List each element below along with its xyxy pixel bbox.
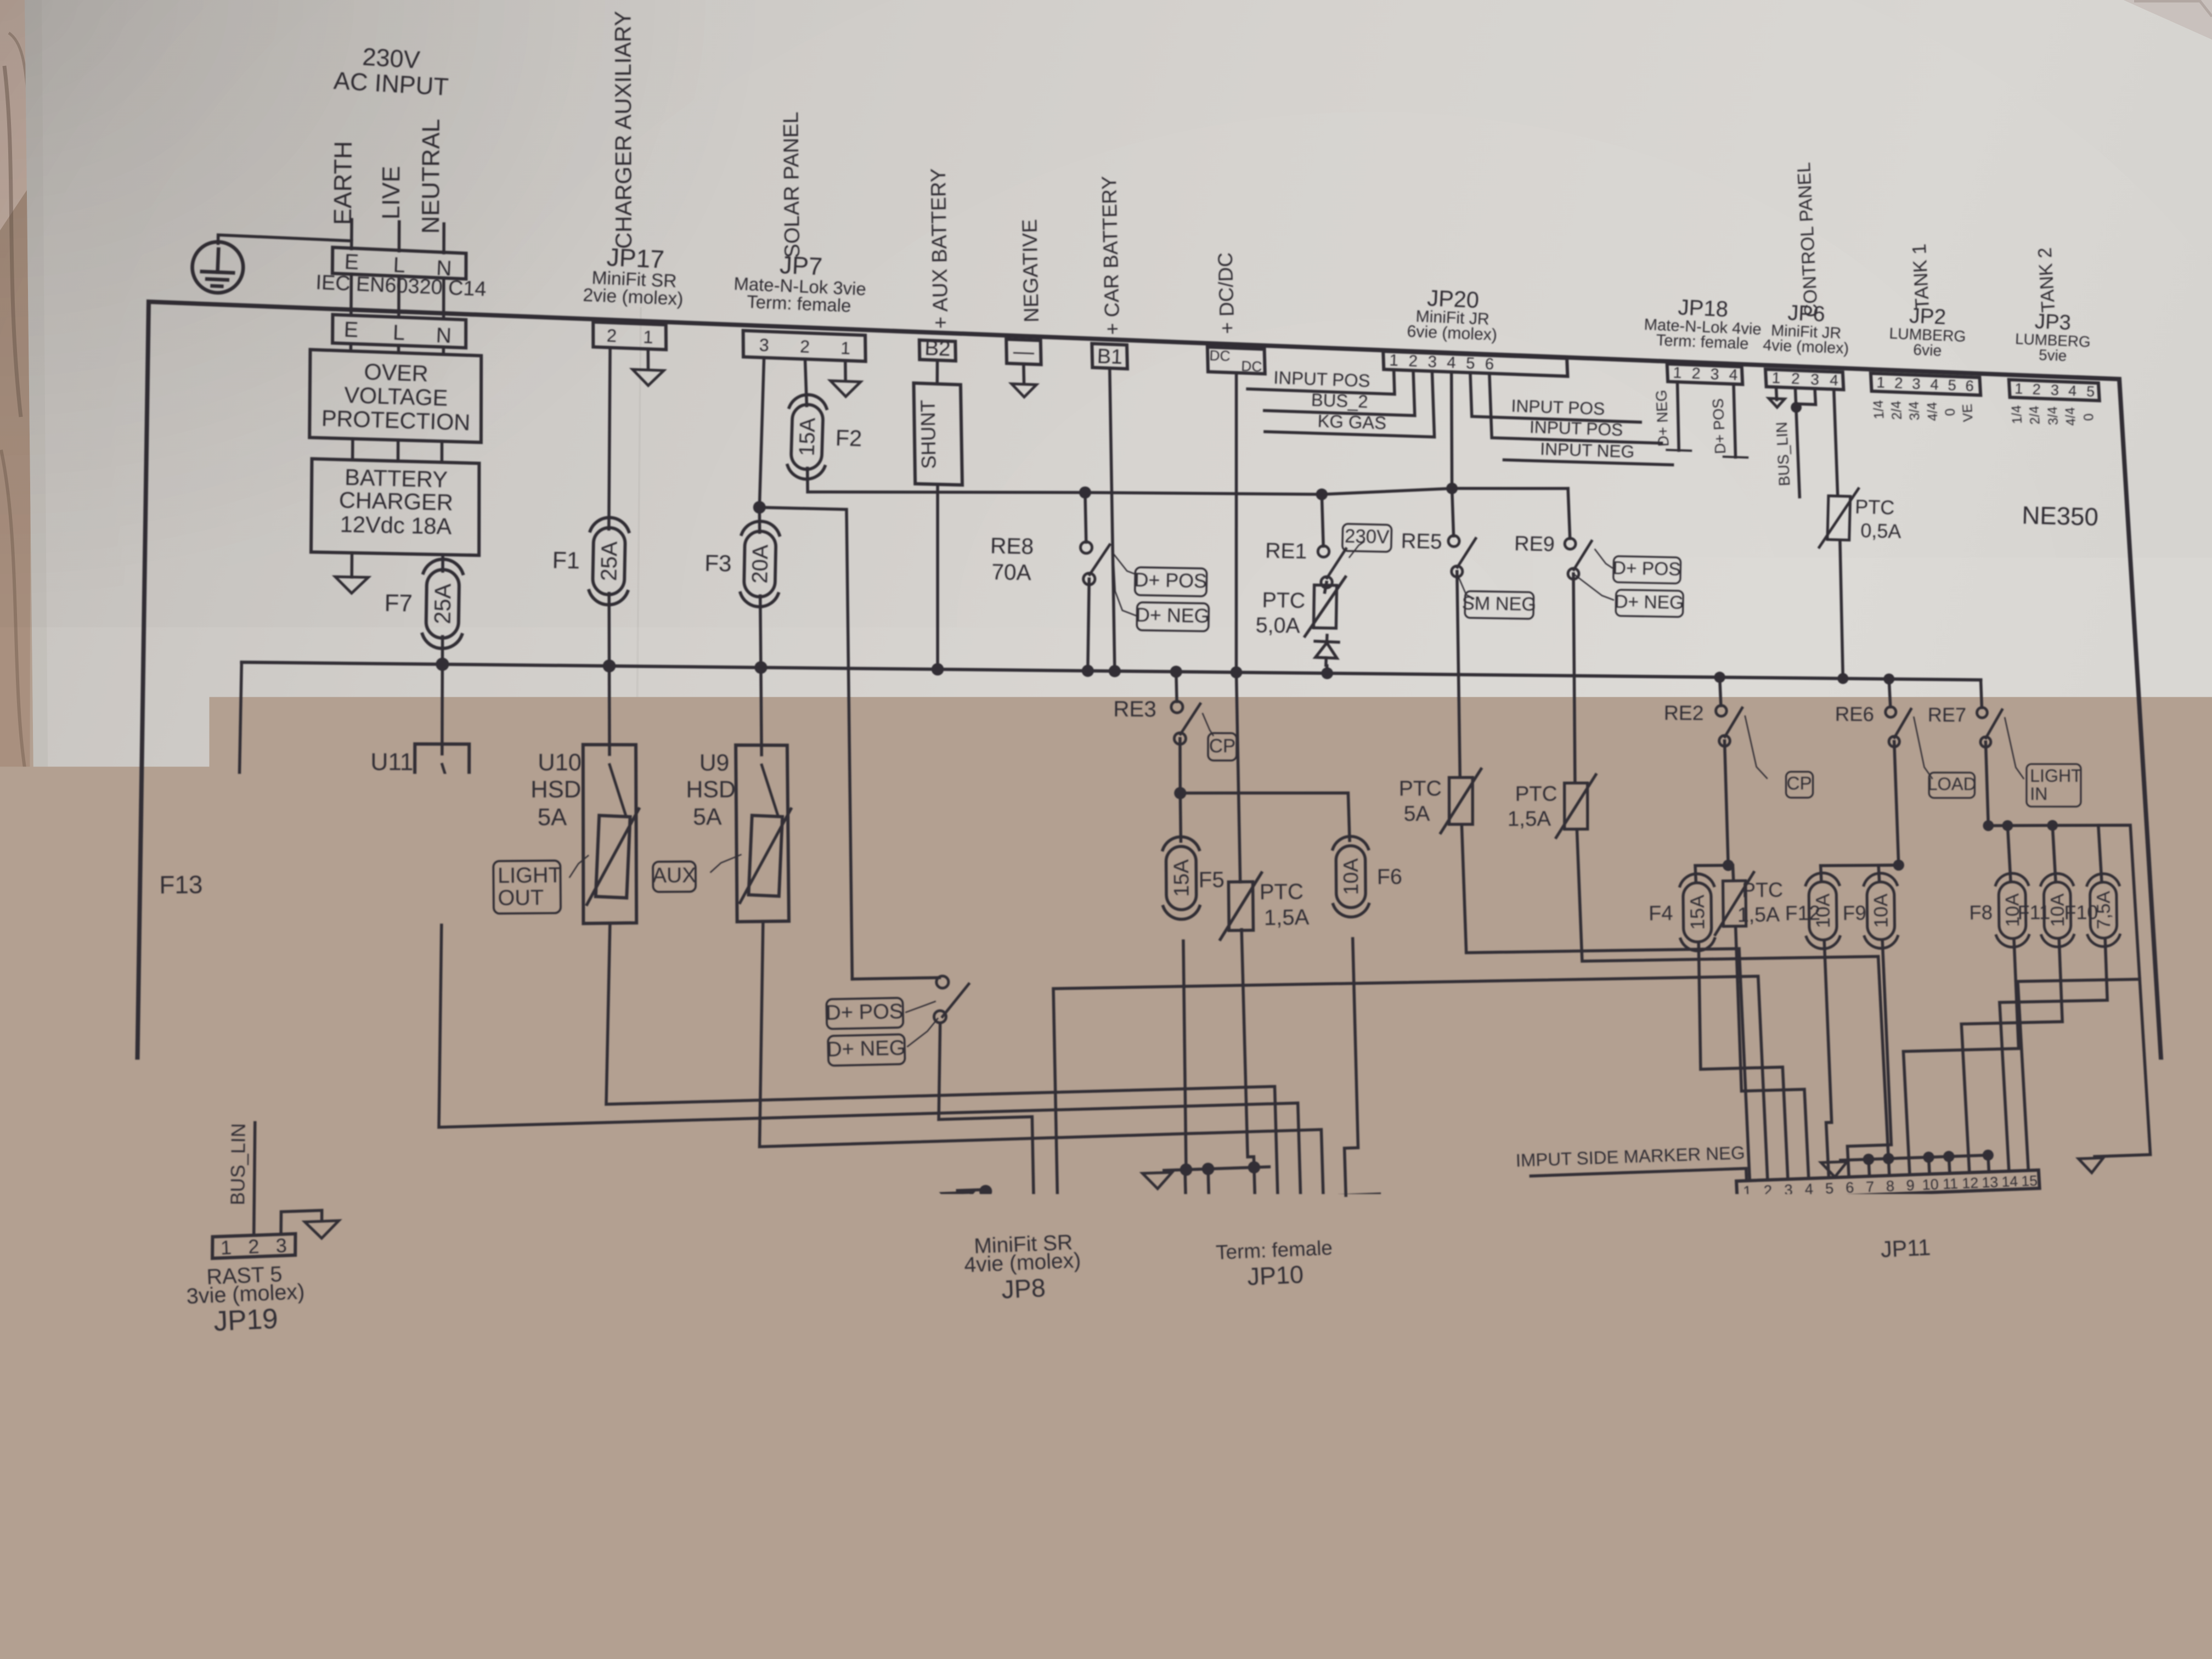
wire diode to bus <box>1325 666 1329 674</box>
wire U9 output to JP10 pin7 <box>760 922 1324 1197</box>
wire charger to ground <box>350 553 353 577</box>
connector lower E L N box <box>332 315 466 348</box>
connector B2 box <box>919 340 956 361</box>
wire shunt to bus <box>936 484 939 669</box>
connector JP20 box <box>1383 351 1567 376</box>
wire JP6 pin2 to BUS_LIN <box>1795 388 1799 497</box>
wire DCDC down through bus to PTC <box>1235 373 1238 673</box>
battery charger box <box>311 459 479 555</box>
wire node to solar vertical <box>759 507 852 979</box>
wire JP17 pin2 to F1 <box>609 348 610 529</box>
marble top-right corner <box>2124 0 2212 39</box>
paper left edge shade <box>25 0 134 1620</box>
relay RE5 <box>1452 488 1454 536</box>
net box D+ POS at RE9 <box>1612 556 1681 584</box>
node under RE3 <box>1174 787 1186 799</box>
continuation arrow at JP7 pin1 <box>831 381 861 397</box>
wire solar vertical to RE4 <box>852 978 939 979</box>
wire JP6 pin1 stub <box>1776 387 1777 400</box>
continuation arrow JP6 pin1 <box>1769 398 1785 407</box>
net box CP at RE3 <box>1208 733 1237 760</box>
fuse F7 25A <box>422 559 463 649</box>
connector JP17 box <box>593 322 666 349</box>
junction dot RE8 top <box>1079 487 1091 499</box>
wire JP20 pin6 INPUT POS 2 <box>1489 374 1662 443</box>
junction dots JP10 <box>1180 1164 1193 1176</box>
shunt box <box>914 383 963 485</box>
wire JP6 pin4 to PTC 0,5A <box>1834 390 1838 495</box>
relay RE9 <box>1568 488 1570 538</box>
PTC 1,5A mid thermistor <box>1714 872 1754 935</box>
connector JP10 box <box>1175 1194 1380 1222</box>
connector JP18 box <box>1667 364 1743 384</box>
net box LIGHT IN <box>2027 764 2082 807</box>
fuse F1 25A <box>589 517 629 605</box>
wire RE6 to node <box>1894 742 1899 865</box>
wire RE2 to node <box>1725 741 1729 865</box>
fold highlight band <box>115 1426 2212 1620</box>
junction dot RE5 top <box>1446 483 1458 494</box>
wire JP6 pin3 hook <box>1797 388 1816 404</box>
wire JP11 ground line <box>1841 1155 1988 1160</box>
leader RE1 to 230V box <box>1350 542 1364 557</box>
wire JP18 pin1 D+NEG <box>1678 382 1679 450</box>
continuation arrow at JP17 pin1 <box>633 369 664 385</box>
leader RE9 to D+POS/D+NEG <box>1595 550 1612 568</box>
junction dot JP6 <box>1791 402 1802 413</box>
relay RE1 <box>1322 494 1323 546</box>
diode at RE1 branch <box>1314 635 1339 665</box>
wire B1 to bus <box>1110 368 1115 671</box>
connector JP11 box <box>1736 1170 2040 1200</box>
wire F10 to JP11 pin14 <box>2000 939 2107 1171</box>
wire JP20 pin4 down to KG feed line <box>1450 372 1453 488</box>
wire JP17 pin1 stub <box>647 349 650 369</box>
connector minus box <box>1006 339 1041 364</box>
relay RE6 <box>1889 679 1891 707</box>
stub JP10 pin2 <box>1208 1169 1209 1200</box>
fuse F2 15A <box>787 394 827 479</box>
pin ticks OVP to charger <box>351 439 354 460</box>
wire JP20 pin2 to BUS_2 <box>1265 370 1415 415</box>
wire U10 output to JP10 pin5 <box>606 923 1278 1198</box>
wire JP8 pin4 riser to JP11 pin2 <box>1053 977 1768 1206</box>
wire RE6 node to F12 <box>1821 865 1899 881</box>
outer border of schematic <box>134 302 2169 1261</box>
HSD switch U9 <box>736 745 789 922</box>
net box SM NEG <box>1462 591 1536 619</box>
leader RE6 to LOAD <box>1914 717 1932 778</box>
wire U11 output to JP10 pin6 <box>439 925 1301 1197</box>
wire earth to E pin <box>218 235 352 244</box>
wire JP20 pin5 INPUT POS right <box>1470 373 1640 422</box>
wire F3 to bus <box>760 596 761 668</box>
wire charger to F7 <box>441 555 444 571</box>
wire F9 to JP11 pin6 <box>1847 940 1891 1177</box>
wire BUS_LIN to JP19 pin2 <box>254 1122 255 1235</box>
wire minus stub <box>1022 364 1025 383</box>
connector JP2 box <box>1871 373 1980 395</box>
connector B1 box <box>1092 343 1127 369</box>
PTC 1,5A left thermistor <box>1220 873 1262 939</box>
pin ticks through border <box>349 274 353 315</box>
wire bus corner to RE7 <box>1981 680 1982 708</box>
node RE2 branch <box>1723 860 1734 871</box>
wire RE3 to node <box>1178 738 1182 793</box>
ground arrow at JP19 <box>305 1221 339 1238</box>
PTC 1,5A right thermistor <box>1556 775 1596 838</box>
ground arrow at JP10 <box>1143 1172 1172 1189</box>
wire node to F5 <box>1180 793 1181 842</box>
connector IEC EN60320 C14 upper E L N box <box>332 247 466 279</box>
fuse F8 10A <box>1995 873 2029 947</box>
wire JP7 pin1 stub <box>844 360 847 380</box>
wire RE7 line to fuses F8 F11 F10 <box>1988 825 2150 1156</box>
net box D+ NEG at RE8 <box>1136 602 1210 631</box>
leader RE7 to LIGHT IN <box>2005 718 2023 779</box>
net box D+ POS at RE8 <box>1134 567 1207 596</box>
wire JP11 pin15 riser <box>2018 979 2140 1170</box>
HSD switch U11 <box>414 744 469 926</box>
fuse F3 20A <box>740 521 780 607</box>
continuation arrow minus <box>1012 384 1036 397</box>
wire JP7 pin3 down to node <box>759 358 764 507</box>
junction dots JP11 ground line <box>1863 1154 1875 1165</box>
net line IMPUT SIDE MARKER NEG <box>1531 1169 1746 1181</box>
folded lower page strip <box>112 1494 2212 1659</box>
wire JP20 pin1 to INPUT POS <box>1248 370 1395 394</box>
node RE7 branch <box>1983 820 1994 831</box>
wire RE5 through bus to PTC 5A <box>1457 572 1460 777</box>
net box D+ NEG at RE9 <box>1615 590 1684 617</box>
wire NEUTRAL tick <box>442 224 445 253</box>
wire F11 stub <box>2052 826 2056 882</box>
net box D+ NEG at RE4 <box>826 1034 906 1065</box>
wire F4 to JP11 pin3 <box>1699 943 1788 1180</box>
stub JP10 pin1 <box>1185 1170 1186 1201</box>
relay RE4 <box>936 976 949 988</box>
fuse F12 10A <box>1805 873 1840 949</box>
wire RE9 through bus to PTC 1,5A <box>1573 574 1575 782</box>
leader PUMP <box>400 856 420 874</box>
wire F12 to JP11 pin5 <box>1824 941 1832 1178</box>
leader RE3 to CP <box>1203 714 1213 736</box>
relay RE7 <box>1977 708 1988 718</box>
wire F6 to JP10 <box>1345 939 1358 1195</box>
junction dot RE1 top <box>1316 488 1328 500</box>
wire PTC 0,5A to bus <box>1840 541 1843 679</box>
wire F10 stub <box>2098 825 2102 881</box>
leader RE5 to SM NEG <box>1458 576 1474 599</box>
wire PTC5A down to braid <box>1462 825 1750 1181</box>
wire node to F6 <box>1180 793 1350 840</box>
wire JP20 pin3 to KG GAS <box>1265 371 1435 437</box>
HSD switch U10 <box>583 744 636 923</box>
wire node to F3 <box>758 507 761 533</box>
connector JP19 box <box>212 1234 295 1259</box>
wire F8 to JP11 pin9 <box>1903 939 2018 1175</box>
fuse F4 15A <box>1680 873 1715 951</box>
wire LIVE tick <box>398 222 401 251</box>
ground arrow at JP11 <box>1821 1161 1847 1177</box>
ground symbol under charger <box>335 577 368 593</box>
wire F11 to JP11 pin12 <box>1961 939 2062 1172</box>
fuse F13 15A <box>216 838 258 931</box>
connector JP6 box <box>1765 369 1843 390</box>
junction dots on bus <box>436 658 449 671</box>
wire F1 to bus <box>607 594 611 666</box>
stub JP10 pin4 <box>1254 1167 1255 1199</box>
relay contact RE8 <box>1085 493 1086 543</box>
wire JP8 pin1 ground hook <box>957 1189 986 1209</box>
wire F8 stub <box>2007 826 2011 881</box>
wire EARTH tick <box>350 219 353 249</box>
wire KG feed line <box>808 488 1568 494</box>
connector JP7 box <box>743 331 866 362</box>
subtle centre crease <box>631 307 641 1404</box>
wire F5 to JP10 pins line <box>1183 941 1186 1170</box>
main 12V bus wire <box>241 662 1980 680</box>
wire RE6 node to F9 <box>1878 865 1899 881</box>
wire B2 to shunt <box>936 360 939 384</box>
wire RE1 to PTC <box>1325 582 1327 592</box>
wire DCDC PTC column <box>1237 673 1240 882</box>
wire RE2 node to F4 <box>1695 865 1728 881</box>
node above F3 <box>753 501 766 513</box>
net box LOAD <box>1927 772 1976 798</box>
wire PTC left to JP10 <box>1242 930 1254 1167</box>
leader RE8 to D+POS/D+NEG <box>1113 554 1136 574</box>
net INPUT NEG stub <box>1504 460 1673 465</box>
fuse F9 10A <box>1864 873 1898 949</box>
wire F2 elbow to KG line <box>806 469 809 492</box>
next page rectangle 1 outline <box>1089 1620 1541 1659</box>
node F11 <box>2047 820 2058 831</box>
relay RE2 <box>1720 678 1721 706</box>
net box 230V <box>1342 524 1392 552</box>
fuse F5 15A <box>1163 837 1200 919</box>
net box LIGHT OUT <box>493 861 562 914</box>
ground arrow at JP8 <box>942 1192 973 1209</box>
node F8 <box>2002 820 2013 831</box>
leader AUX <box>711 855 741 872</box>
PTC 5,0A thermistor <box>1305 576 1346 636</box>
wire bus left drop to JP19 pin1 <box>230 662 241 1236</box>
wire RE4 output down <box>939 1024 1034 1207</box>
wire RE9 PTC to braid <box>1577 830 1888 1162</box>
arrow at right net <box>2079 1158 2103 1173</box>
next page rectangle 2 outline <box>1709 1566 2212 1611</box>
net box AUX <box>652 861 696 892</box>
wire RE7 to node <box>1985 742 1988 826</box>
connector JP3 box <box>2009 380 2100 400</box>
fuse F11 10A <box>2041 873 2074 947</box>
leader LIGHT OUT <box>569 856 588 877</box>
pin ticks ELN to OVP <box>349 343 353 351</box>
fuse F10 7,5A <box>2087 873 2120 946</box>
wire JP19 pin3 ground hook <box>281 1210 322 1234</box>
net box PUMP <box>324 863 388 895</box>
wire PTC mid to JP11 pin4 <box>1736 927 1809 1178</box>
fuse F6 10A <box>1333 836 1369 917</box>
over voltage protection box U <box>309 349 481 442</box>
wire F7 to bus <box>441 636 444 664</box>
leader D+POS/D+NEG at RE4 <box>906 1002 935 1013</box>
protective earth symbol <box>191 241 245 294</box>
net box D+ POS at RE4 <box>826 998 904 1029</box>
node RE6 branch <box>1893 860 1904 871</box>
connector JP8 box <box>974 1205 1070 1229</box>
wire JP10 dots line <box>1164 1167 1269 1171</box>
net box CP at RE2 <box>1786 772 1813 798</box>
connector DC/DC box <box>1207 347 1265 374</box>
wire JP7 pin2 to F2 <box>805 359 807 406</box>
junction dot JP8 <box>979 1185 992 1198</box>
PTC 0,5A thermistor <box>1819 488 1858 548</box>
relay RE3 <box>1176 672 1177 701</box>
wire JP18 pin4 D+POS <box>1734 384 1736 457</box>
wire RE2 node to PTC right <box>1728 865 1733 879</box>
leader RE2 to CP <box>1745 716 1767 778</box>
PTC 5A thermistor <box>1441 769 1481 833</box>
